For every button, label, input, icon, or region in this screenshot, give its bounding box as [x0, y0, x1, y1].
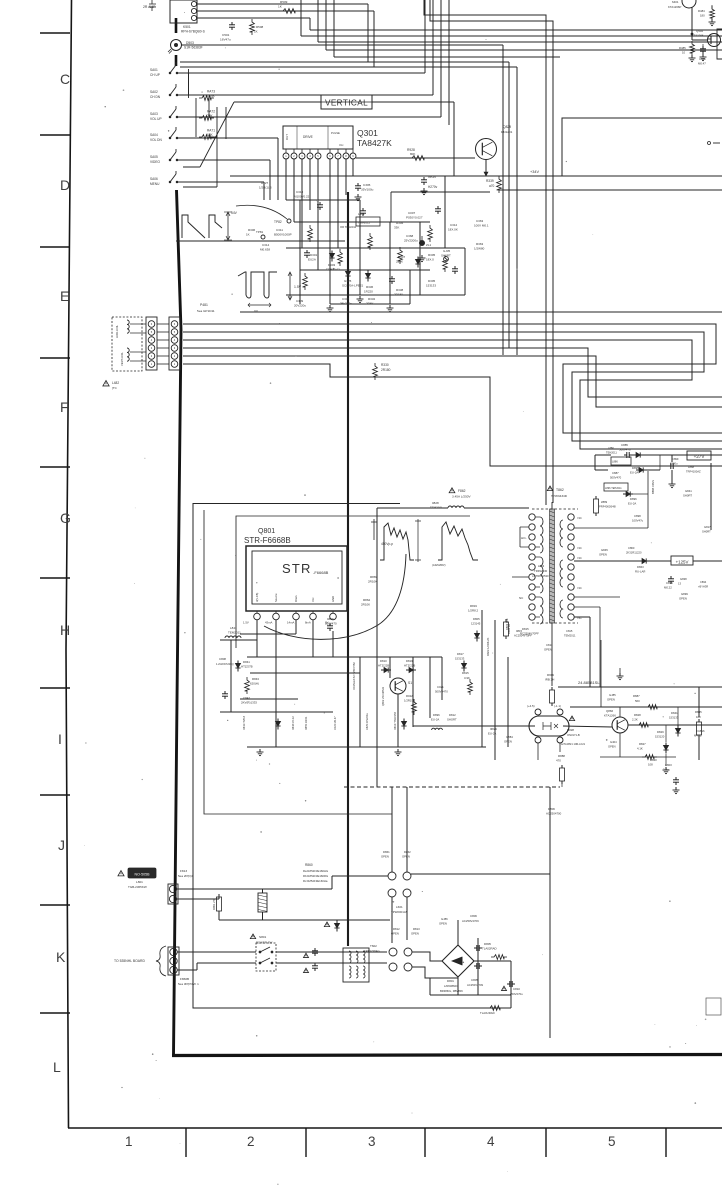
svg-text:+BYH3R: +BYH3R: [698, 585, 708, 589]
svg-text:R304: R304: [396, 221, 404, 225]
svg-text:B888 OPEN: B888 OPEN: [651, 480, 655, 494]
svg-text:Q402: Q402: [696, 29, 703, 33]
svg-text:TP82: TP82: [274, 220, 282, 224]
svg-text:D804 HTZ/215B: D804 HTZ/215B: [394, 712, 397, 730]
svg-text:C803: C803: [665, 763, 672, 767]
svg-text:HTZ/27B: HTZ/27B: [241, 665, 253, 669]
svg-text:HOR.COIL: HOR.COIL: [115, 325, 119, 338]
svg-text:0828: 0828: [432, 501, 439, 505]
svg-text:+27V: +27V: [694, 454, 706, 459]
svg-text:[V]: [V]: [254, 309, 258, 313]
svg-text:R819: R819: [470, 604, 477, 608]
svg-text:D801: D801: [447, 979, 454, 983]
svg-text:SA02: SA02: [150, 90, 158, 94]
svg-text:D829: D829: [657, 730, 664, 734]
svg-text:D841 ITV6.8: D841 ITV6.8: [243, 715, 246, 730]
svg-text:(+4.5): (+4.5): [527, 704, 535, 708]
svg-text:D896: D896: [433, 713, 440, 717]
svg-text:0815: 0815: [516, 629, 522, 633]
svg-text:EU-2A: EU-2A: [628, 502, 636, 506]
svg-text:560: 560: [635, 699, 640, 703]
svg-text:M0.47: M0.47: [698, 62, 706, 66]
svg-text:SH0RT: SH0RT: [702, 530, 711, 534]
svg-text:GJ85: GJ85: [609, 693, 616, 697]
svg-text:153120: 153120: [655, 735, 665, 739]
svg-text:FC8N6: FC8N6: [696, 729, 705, 733]
svg-text:C805: C805: [471, 978, 478, 982]
svg-text:VERTICAL: VERTICAL: [325, 99, 368, 108]
svg-text:TA8427K: TA8427K: [357, 138, 392, 148]
svg-text:P030Y0.027: P030Y0.027: [406, 216, 423, 220]
svg-text:GND: GND: [331, 596, 335, 602]
svg-text:1/2W80: 1/2W80: [474, 247, 485, 251]
svg-text:2: 2: [247, 1134, 255, 1149]
svg-text:L888: L888: [688, 465, 694, 469]
svg-text:RA72: RA72: [207, 110, 215, 114]
svg-text:SA04: SA04: [150, 133, 158, 137]
svg-text:470: 470: [556, 759, 561, 763]
svg-text:500V478: 500V478: [619, 448, 631, 452]
svg-text:SC070A-LPE21: SC070A-LPE21: [342, 284, 364, 288]
svg-text:RPH-67BQB0-S: RPH-67BQB0-S: [181, 30, 206, 34]
svg-text:G838: G838: [680, 577, 687, 581]
svg-text:C007: C007: [408, 211, 416, 215]
svg-text:1R220: 1R220: [364, 290, 373, 294]
svg-text:C898: C898: [634, 514, 641, 518]
svg-text:C363: C363: [476, 219, 484, 223]
svg-text:Q866: Q866: [606, 709, 613, 713]
svg-text:B500V1000P: B500V1000P: [274, 233, 292, 237]
svg-text:14mA: 14mA: [287, 621, 294, 625]
svg-text:G325: G325: [344, 279, 352, 283]
svg-text:C022 M0.47: C022 M0.47: [334, 716, 337, 730]
svg-text:L801: L801: [136, 880, 143, 884]
svg-text:-F6668B: -F6668B: [313, 570, 329, 575]
svg-text:SA03: SA03: [150, 112, 158, 116]
svg-text:OPEN: OPEN: [439, 922, 447, 926]
svg-text:43mA: 43mA: [265, 621, 272, 625]
svg-text:SA06: SA06: [150, 177, 158, 181]
svg-text:L/R63860C: L/R63860C: [444, 984, 458, 988]
svg-text:+125V: +125V: [676, 559, 689, 564]
svg-text:OPEN: OPEN: [411, 932, 419, 936]
svg-text:D895: D895: [632, 466, 639, 470]
svg-text:ZL1: ZL1: [426, 243, 432, 247]
svg-text:OPEN: OPEN: [402, 855, 410, 859]
svg-text:68K: 68K: [207, 133, 214, 137]
svg-text:H: H: [60, 622, 70, 638]
svg-text:OPEN: OPEN: [544, 648, 552, 652]
svg-text:220K: 220K: [396, 260, 403, 264]
svg-text:R022: R022: [406, 694, 413, 698]
svg-text:0829: 0829: [327, 617, 334, 621]
svg-text:SA01: SA01: [150, 68, 158, 72]
svg-text:L896 TEH2011: L896 TEH2011: [605, 487, 622, 490]
svg-text:L: L: [53, 1059, 61, 1075]
svg-text:TEM2011: TEM2011: [564, 634, 576, 638]
svg-text:TPW3434D: TPW3434D: [551, 494, 568, 498]
svg-text:D301: D301: [310, 253, 318, 257]
svg-text:RN1201: RN1201: [501, 130, 513, 134]
svg-text:P481: P481: [200, 303, 208, 307]
svg-text:EU2A: EU2A: [308, 258, 316, 262]
svg-text:SH0RT: SH0RT: [683, 494, 692, 498]
svg-text:M0.638: M0.638: [260, 248, 270, 252]
svg-text:D805: D805: [484, 942, 491, 946]
svg-text:TLA0URAD: TLA0URAD: [480, 1011, 495, 1015]
svg-text:R306: R306: [248, 228, 256, 232]
svg-text:L301: L301: [358, 212, 365, 216]
svg-text:Q801: Q801: [258, 528, 275, 535]
svg-text:25V2200u: 25V2200u: [404, 239, 418, 243]
svg-text:D817: D817: [457, 652, 464, 656]
svg-text:6401: 6401: [672, 0, 679, 4]
svg-text:AC2504V70PF: AC2504V70PF: [514, 634, 532, 638]
svg-text:20V220u: 20V220u: [294, 304, 306, 308]
svg-text:(AD/G8RV): (AD/G8RV): [432, 563, 446, 567]
svg-text:R862: R862: [363, 598, 371, 602]
svg-text:M100V0.22: M100V0.22: [294, 195, 310, 199]
svg-text:D815: D815: [522, 627, 529, 631]
svg-text:M0.22: M0.22: [664, 586, 672, 590]
svg-text:STR-F6668B: STR-F6668B: [244, 536, 291, 545]
svg-text:KTA1266P: KTA1266P: [668, 5, 681, 9]
svg-text:C810: C810: [513, 987, 520, 991]
svg-text:D305: D305: [428, 279, 436, 283]
svg-text:R860: R860: [305, 863, 313, 867]
svg-text:Q802 2SC3852J: Q802 2SC3852J: [381, 686, 385, 706]
svg-text:L482: L482: [112, 381, 119, 385]
svg-text:R339: R339: [486, 179, 494, 183]
svg-text:8mA: 8mA: [305, 621, 311, 625]
svg-text:2KV(R)1333: 2KV(R)1333: [241, 701, 257, 705]
svg-text:R809 30K: R809 30K: [505, 618, 509, 630]
svg-text:Q301: Q301: [357, 128, 378, 138]
svg-text:R859 1/2R1: R859 1/2R1: [305, 716, 308, 730]
svg-text:Z889: Z889: [601, 500, 608, 504]
svg-text:C368: C368: [406, 234, 414, 238]
svg-text:G829: G829: [490, 727, 497, 731]
svg-text:13: 13: [678, 582, 681, 586]
svg-text:R330: R330: [381, 363, 389, 367]
svg-text:KTA1266: KTA1266: [692, 34, 704, 38]
svg-text:R484: R484: [698, 9, 705, 13]
svg-text:Vcc: Vcc: [311, 597, 315, 602]
svg-text:500V470: 500V470: [610, 476, 622, 480]
svg-text:R828: R828: [634, 713, 641, 717]
svg-text:Vcc: Vcc: [339, 143, 344, 147]
svg-text:C313: C313: [296, 190, 304, 194]
svg-text:S1R-56383F: S1R-56383F: [184, 46, 203, 50]
svg-text:24.88581SL: 24.88581SL: [578, 680, 600, 685]
svg-text:TRF92530: TRF92530: [534, 569, 548, 573]
svg-text:TO 535NHL BOARD: TO 535NHL BOARD: [114, 959, 145, 963]
svg-text:G: G: [60, 510, 71, 526]
svg-text:C314: C314: [262, 243, 270, 247]
svg-text:620(H): 620(H): [250, 682, 259, 686]
svg-text:G404: G404: [610, 740, 617, 744]
svg-text:22K: 22K: [207, 114, 214, 118]
svg-text:OPEN: OPEN: [504, 740, 512, 744]
svg-text:GJ86: GJ86: [441, 917, 448, 921]
svg-text:R823 1/2R8.2K: R823 1/2R8.2K: [486, 637, 490, 656]
svg-text:R338: R338: [396, 288, 404, 292]
svg-text:R485: R485: [679, 46, 686, 50]
svg-text:PULSE: PULSE: [331, 131, 340, 135]
svg-text:R508: R508: [256, 25, 264, 29]
svg-text:4: 4: [487, 1134, 495, 1149]
svg-text:C894: C894: [700, 580, 707, 584]
svg-text:F862: F862: [458, 489, 466, 493]
svg-text:TFM201L: TFM201L: [430, 506, 443, 510]
svg-text:C899: C899: [672, 457, 679, 461]
svg-text:1/2R(1).3: 1/2R(1).3: [259, 186, 272, 190]
svg-text:80K: 80K: [410, 152, 415, 156]
svg-text:BR3860L, RBV806: BR3860L, RBV806: [440, 989, 463, 993]
svg-text:K501: K501: [183, 25, 191, 29]
svg-text:TEM2011: TEM2011: [228, 631, 241, 635]
svg-text:HTZ/22B: HTZ/22B: [378, 664, 389, 668]
svg-text:R332: R332: [368, 297, 376, 301]
svg-text:TRF3238AG: TRF3238AG: [364, 949, 380, 953]
svg-text:+34V: +34V: [530, 170, 539, 174]
svg-text:Source: Source: [274, 593, 278, 602]
svg-text:R869: R869: [370, 575, 378, 579]
svg-text:2200u: 2200u: [670, 462, 678, 466]
svg-text:SHORT: SHORT: [447, 718, 457, 722]
svg-text:500V0470: 500V0470: [435, 690, 448, 694]
svg-text:5ea 2P(D)1: 5ea 2P(D)1: [178, 874, 194, 878]
svg-text:KTA1266: KTA1266: [604, 714, 616, 718]
svg-text:R307: R307: [398, 255, 406, 259]
svg-text:G884: G884: [506, 735, 513, 739]
svg-text:F860B: F860B: [180, 977, 189, 981]
svg-text:D503: D503: [186, 41, 194, 45]
svg-text:VOL UP: VOL UP: [150, 117, 162, 121]
svg-text:R888: R888: [558, 754, 565, 758]
svg-text:1.2GKW7220Q: 1.2GKW7220Q: [216, 662, 234, 666]
svg-text:T602: T602: [370, 944, 377, 948]
svg-text:2R180: 2R180: [394, 293, 403, 297]
svg-text:33K: 33K: [394, 226, 399, 230]
svg-text:TEM2011: TEM2011: [358, 221, 370, 225]
svg-text:F813: F813: [180, 869, 187, 873]
svg-text:G845: G845: [601, 548, 608, 552]
svg-text:oT TRF92530: oT TRF92530: [532, 574, 549, 578]
svg-text:R327: R327: [261, 181, 269, 185]
svg-text:18X.0K: 18X.0K: [448, 228, 458, 232]
svg-text:R812: R812: [393, 927, 400, 931]
svg-text:108: 108: [648, 763, 653, 767]
svg-text:L601: L601: [396, 905, 403, 909]
svg-text:R820: R820: [650, 758, 657, 762]
svg-text:L841: L841: [230, 626, 237, 630]
svg-text:C312: C312: [450, 223, 458, 227]
svg-text:1/2R19K: 1/2R19K: [404, 699, 415, 703]
svg-text:C815: C815: [566, 629, 573, 633]
svg-text:500V470: 500V470: [325, 622, 337, 626]
svg-text:H270v: H270v: [428, 185, 438, 189]
svg-text:3.45A L/250V: 3.45A L/250V: [452, 495, 472, 499]
svg-text:C808: C808: [219, 657, 226, 661]
svg-text:2.2K: 2.2K: [632, 718, 638, 722]
svg-text:18X.0: 18X.0: [426, 258, 434, 262]
svg-text:OPEN: OPEN: [607, 698, 615, 702]
svg-text:a70: a70: [489, 184, 495, 188]
svg-text:2K31R11220: 2K31R11220: [626, 551, 642, 555]
svg-text:D806: D806: [548, 807, 555, 811]
svg-text:OPEN: OPEN: [391, 932, 399, 936]
svg-text:J: J: [58, 837, 65, 853]
svg-text:5ea GP1D11: 5ea GP1D11: [197, 309, 215, 313]
svg-text:GJ35: GJ35: [443, 249, 451, 253]
svg-text:(-1.1): (-1.1): [554, 704, 561, 708]
svg-text:TLA02RAD: TLA02RAD: [482, 947, 497, 951]
svg-text:Rb:RZ52F3E160RG: Rb:RZ52F3E160RG: [303, 874, 328, 878]
svg-text:D805: D805: [473, 617, 480, 621]
svg-text:R843: R843: [252, 677, 259, 681]
svg-text:DRIVE: DRIVE: [303, 135, 313, 139]
svg-text:1(0)K: 1(0)K: [207, 94, 216, 98]
svg-text:3-9K: 3-9K: [464, 676, 470, 680]
svg-text:w/TLR821 10R-LF21: w/TLR821 10R-LF21: [561, 742, 586, 746]
svg-text:1K: 1K: [246, 233, 250, 237]
svg-text:R851 270: R851 270: [212, 898, 216, 910]
svg-text:450V270u: 450V270u: [510, 992, 523, 996]
svg-text:I: I: [58, 731, 62, 747]
svg-text:100V47u: 100V47u: [632, 519, 644, 523]
svg-text:OUT: OUT: [285, 134, 289, 140]
svg-text:C806: C806: [470, 914, 477, 918]
svg-text:D863: D863: [637, 565, 644, 569]
svg-text:2R6K: 2R6K: [366, 302, 374, 306]
svg-text:1K: 1K: [254, 30, 258, 34]
svg-text:STR: STR: [282, 561, 312, 576]
svg-text:Ra:RZ52F3E160HG: Ra:RZ52F3E160HG: [303, 869, 328, 873]
svg-text:C860: C860: [628, 546, 635, 550]
svg-text:1.5V: 1.5V: [243, 621, 249, 625]
svg-text:ON3171-B: ON3171-B: [567, 733, 580, 737]
svg-text:RD15E2A B2 HZ515HB2: RD15E2A B2 HZ515HB2: [353, 662, 356, 690]
svg-text:D: D: [60, 177, 70, 193]
svg-text:C305: C305: [363, 183, 371, 187]
svg-text:3(V-FB): 3(V-FB): [255, 593, 259, 602]
svg-text:450Vp-p: 450Vp-p: [381, 542, 393, 546]
svg-text:PRF4000S49I: PRF4000S49I: [599, 505, 616, 509]
svg-text:35V220u: 35V220u: [340, 302, 352, 306]
svg-text:54V: 54V: [231, 211, 238, 215]
svg-text:D828: D828: [567, 728, 574, 732]
svg-text:R815: R815: [462, 671, 469, 675]
svg-text:C311: C311: [276, 228, 283, 232]
svg-text:D861: D861: [383, 850, 390, 854]
svg-text:RA73: RA73: [207, 90, 215, 94]
svg-text:C481: C481: [699, 57, 706, 61]
svg-text:VOL DN: VOL DN: [150, 138, 162, 142]
svg-text:SA05: SA05: [150, 155, 158, 159]
svg-text:153133: 153133: [455, 657, 465, 661]
svg-text:C: C: [60, 71, 70, 87]
svg-text:10: 10: [682, 51, 686, 55]
svg-text:C829 20V220u: C829 20V220u: [366, 713, 369, 730]
svg-text:R336: R336: [366, 285, 374, 289]
svg-text:D812: D812: [449, 713, 456, 717]
svg-text:POWER SW: POWER SW: [256, 941, 273, 945]
svg-text:HTZ/22B: HTZ/22B: [404, 664, 415, 668]
svg-text:Rc:RZ52F3E160Ha: Rc:RZ52F3E160Ha: [303, 879, 328, 883]
svg-text:TEH2011: TEH2011: [606, 451, 617, 455]
svg-text:100V M0.1: 100V M0.1: [474, 224, 489, 228]
svg-text:D303: D303: [328, 263, 336, 267]
svg-text:OPEN: OPEN: [608, 745, 616, 749]
svg-text:HO-: HO-: [521, 536, 527, 540]
svg-text:[TC: [TC: [112, 386, 118, 390]
svg-text:K: K: [56, 949, 66, 965]
svg-text:RA71: RA71: [207, 129, 215, 133]
svg-text:3: 3: [368, 1134, 376, 1149]
svg-text:R813: R813: [413, 927, 420, 931]
svg-text:R305: R305: [428, 253, 436, 257]
svg-text:CH UP: CH UP: [150, 73, 160, 77]
svg-text:1.5V: 1.5V: [294, 285, 302, 289]
svg-text:D819: D819: [406, 659, 413, 663]
svg-text:153133: 153133: [426, 284, 436, 288]
svg-text:D841: D841: [671, 711, 678, 715]
svg-text:1: 1: [125, 1134, 133, 1149]
svg-text:C308: C308: [342, 297, 350, 301]
svg-text:TP81: TP81: [256, 230, 264, 234]
svg-text:D841: D841: [243, 660, 250, 664]
svg-text:IRB 2H: IRB 2H: [545, 678, 554, 682]
svg-text:EU-2A: EU-2A: [431, 718, 439, 722]
svg-text:VERT.COIL: VERT.COIL: [120, 352, 124, 366]
svg-text:G817: G817: [704, 525, 711, 529]
svg-text:CH DN: CH DN: [150, 95, 161, 99]
svg-text:F: F: [60, 399, 69, 415]
svg-text:R827: R827: [639, 742, 646, 746]
svg-text:5ea 3P(POW. 1: 5ea 3P(POW. 1: [178, 982, 199, 986]
svg-text:TRF4100AZ: TRF4100AZ: [686, 470, 701, 474]
svg-text:T862: T862: [556, 488, 564, 492]
svg-text:Drain: Drain: [294, 595, 298, 602]
svg-text:L863: L863: [538, 564, 545, 568]
svg-text:Q829: Q829: [503, 125, 511, 129]
svg-text:TPW2001A5: TPW2001A5: [391, 910, 408, 914]
svg-text:G841: G841: [685, 489, 692, 493]
svg-text:4.1K: 4.1K: [637, 747, 643, 751]
svg-text:VIDEO: VIDEO: [150, 160, 160, 164]
svg-text:C885: C885: [621, 443, 628, 447]
svg-text:180: 180: [700, 14, 705, 18]
svg-text:AC250V4709: AC250V4709: [462, 919, 479, 923]
svg-text:R509: R509: [280, 0, 288, 4]
svg-text:C887: C887: [612, 471, 619, 475]
svg-text:1/2R8.2: 1/2R8.2: [468, 609, 479, 613]
svg-text:OPEN: OPEN: [599, 553, 607, 557]
svg-text:R843 RD.12: R843 RD.12: [292, 716, 295, 730]
svg-text:EU-2A: EU-2A: [488, 732, 496, 736]
svg-text:AC2504700: AC2504700: [546, 812, 562, 816]
svg-text:EU-2A: EU-2A: [630, 471, 638, 475]
svg-text:D810: D810: [380, 659, 387, 663]
svg-text:R363: R363: [476, 242, 484, 246]
svg-text:OPEN: OPEN: [679, 597, 687, 601]
svg-text:C021: C021: [437, 685, 444, 689]
svg-text:L886: L886: [608, 446, 614, 450]
svg-text:R887: R887: [633, 694, 640, 698]
svg-text:123145: 123145: [471, 622, 481, 626]
svg-text:D862: D862: [404, 850, 411, 854]
